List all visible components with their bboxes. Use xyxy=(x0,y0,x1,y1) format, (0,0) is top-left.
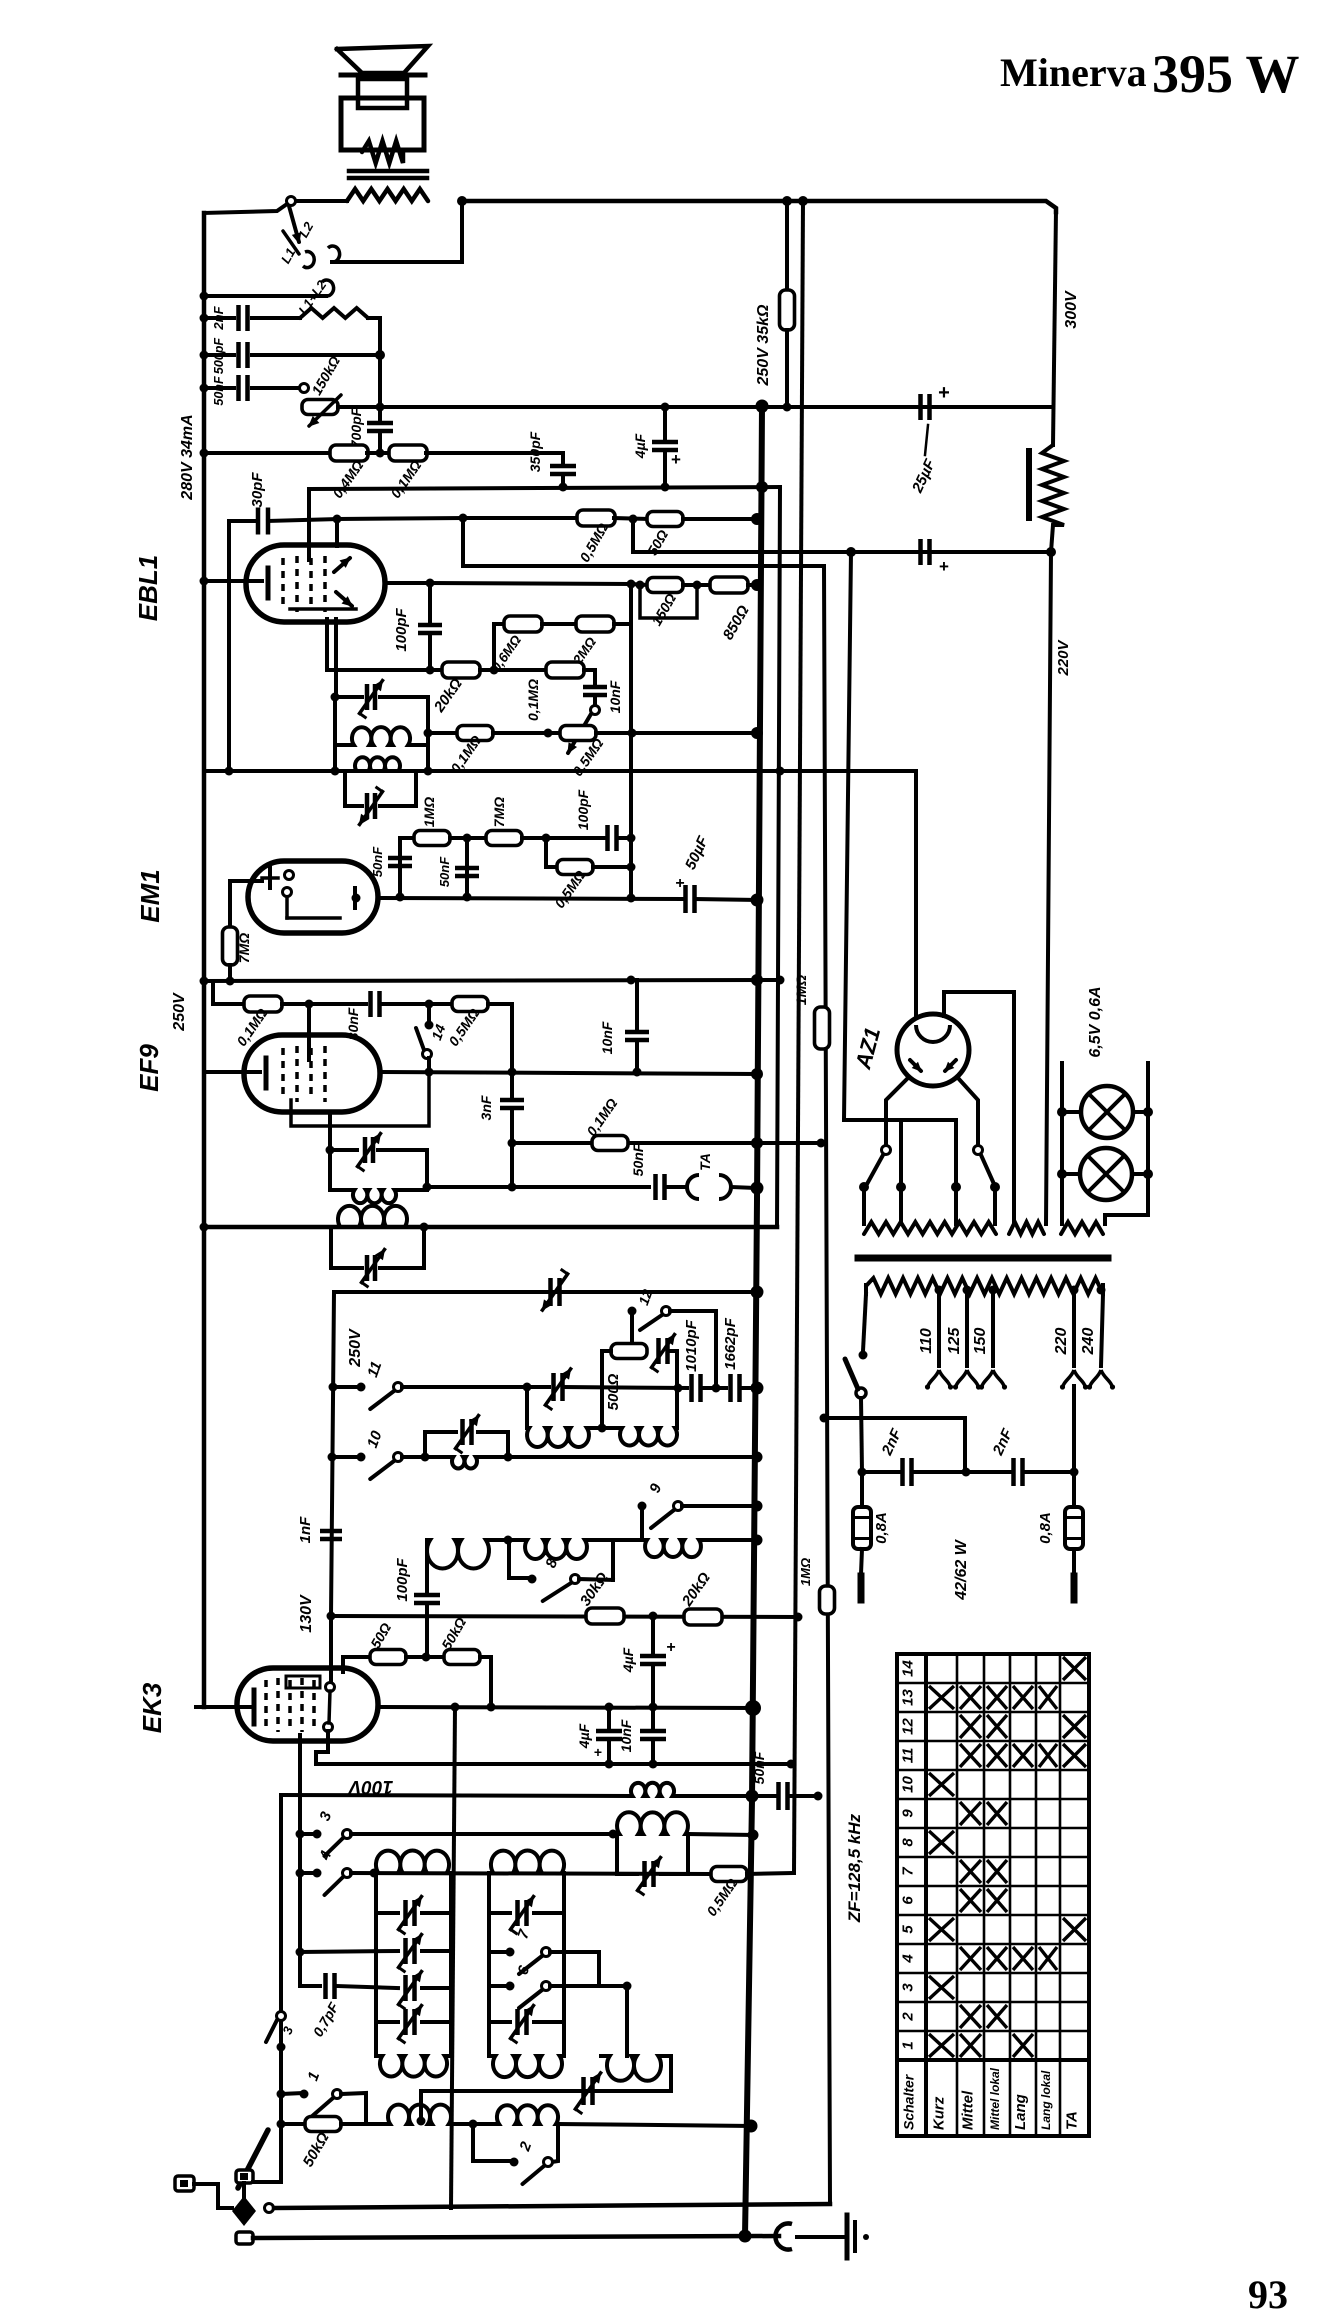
magnet bar 2 xyxy=(349,176,427,181)
node xyxy=(623,1982,632,1991)
wire xyxy=(674,1794,775,1798)
node xyxy=(463,834,472,843)
wire xyxy=(589,1426,620,1430)
heater winding 2 xyxy=(1009,1222,1044,1234)
node xyxy=(605,1760,614,1769)
EK3 grid ring 1 xyxy=(326,1683,335,1692)
filter bottom xyxy=(376,2054,380,2058)
tap 220 fork xyxy=(1063,1370,1074,1386)
wire xyxy=(463,518,824,566)
wire xyxy=(428,633,432,670)
svg-text:+: + xyxy=(594,1744,602,1760)
svg-text:Kurz: Kurz xyxy=(931,2096,948,2130)
rung2 trimmer xyxy=(518,1900,527,1926)
wire xyxy=(462,201,1056,212)
capacitor 10nFb xyxy=(625,1032,649,1040)
node xyxy=(990,1182,1000,1192)
wire row 733 xyxy=(428,731,457,735)
vertical wire xyxy=(492,624,496,670)
mains switch arm xyxy=(845,1359,858,1389)
wire bottom bus 1 xyxy=(274,2204,830,2208)
wire xyxy=(380,1002,453,1006)
arrester diamond xyxy=(232,2196,256,2226)
osc coil D xyxy=(525,1540,587,1559)
pilot lamp 1 xyxy=(1081,1086,1133,1138)
wire xyxy=(579,1579,613,1580)
rung 1951 xyxy=(300,1951,398,1952)
node xyxy=(277,2120,286,2129)
wire xyxy=(668,1349,677,1353)
resistor 0.4MW xyxy=(330,445,368,461)
vertical wire xyxy=(629,584,633,898)
tap 240 fork xyxy=(1090,1370,1101,1386)
node xyxy=(1057,1169,1067,1179)
wire xyxy=(509,1576,532,1580)
switch 13 arm xyxy=(568,714,591,753)
node xyxy=(200,449,209,458)
capacitor 25uF b xyxy=(921,539,930,565)
EBL1 diode arrow xyxy=(336,592,352,606)
node xyxy=(226,977,235,986)
node xyxy=(751,1286,764,1299)
dropper bar xyxy=(1026,451,1032,518)
svg-text:9: 9 xyxy=(900,1809,917,1818)
osc coil F0 xyxy=(631,1783,674,1796)
wire xyxy=(204,386,234,390)
wire row 1227 xyxy=(204,1225,777,1230)
wire xyxy=(252,353,380,357)
svg-text:+: + xyxy=(671,450,681,469)
wire xyxy=(614,518,648,519)
resistor 20kW2 xyxy=(684,1609,722,1625)
node xyxy=(469,2120,478,2129)
EM1 plate bar xyxy=(353,888,357,908)
resistor 0.5MWb xyxy=(560,726,596,741)
svg-text:8: 8 xyxy=(900,1838,917,1847)
coil hook L2 xyxy=(303,252,314,268)
wire xyxy=(944,992,1014,1224)
wire xyxy=(332,1455,361,1459)
potentiometer 150kW xyxy=(302,400,338,415)
vertical wire xyxy=(611,1540,615,1580)
switch 8 xyxy=(528,1575,537,1584)
node xyxy=(712,1384,721,1393)
osc coil E xyxy=(645,1540,701,1557)
wire xyxy=(333,1385,361,1389)
tube AZ1 xyxy=(897,1014,969,1086)
wire xyxy=(1072,1549,1076,1574)
wire xyxy=(229,519,258,523)
EM1 target 1 xyxy=(285,871,294,880)
node xyxy=(331,693,340,702)
wire xyxy=(338,405,380,409)
svg-text:30pF: 30pF xyxy=(249,472,266,508)
IF1 top xyxy=(335,695,362,699)
EK3 osc lead xyxy=(316,1731,328,1764)
wire xyxy=(593,865,631,869)
vertical V822 xyxy=(824,566,830,2204)
svg-text:1nF: 1nF xyxy=(297,1516,314,1544)
IF3 left xyxy=(328,1150,332,1190)
wire xyxy=(863,1294,866,1351)
IF2 bottom xyxy=(345,804,362,808)
svg-text:125: 125 xyxy=(946,1327,963,1355)
wire xyxy=(402,1455,452,1459)
resistor 0.6MW xyxy=(504,616,542,632)
node xyxy=(504,1536,513,1545)
switch 11 xyxy=(357,1383,366,1392)
resistor 50W xyxy=(647,512,683,527)
wire xyxy=(791,1872,794,1875)
rung trimmer xyxy=(406,1975,415,2001)
capacitor 3nF xyxy=(500,1100,524,1108)
capacitor 10nFc xyxy=(640,1731,666,1739)
svg-text:EBL1: EBL1 xyxy=(133,555,163,621)
resistor 7MWb xyxy=(223,927,238,965)
svg-text:350pF: 350pF xyxy=(527,431,543,472)
node xyxy=(649,1612,658,1621)
resistor 0.2MW xyxy=(576,616,614,632)
resistor 1MW xyxy=(414,831,450,846)
svg-text:EK3: EK3 xyxy=(137,1682,167,1733)
svg-text:Lang: Lang xyxy=(1012,2094,1029,2130)
IF3 coil xyxy=(353,1190,396,1203)
node xyxy=(544,729,553,738)
wire xyxy=(402,1385,549,1389)
node xyxy=(559,483,568,492)
IF4 bottom xyxy=(331,1266,362,1270)
fuse 0.8A a xyxy=(853,1507,871,1549)
node xyxy=(1143,1107,1153,1117)
capacitor 4uFb xyxy=(640,1656,666,1664)
IF3 right xyxy=(425,1150,429,1190)
osc coil C xyxy=(427,1540,489,1568)
wire xyxy=(252,386,300,390)
wire xyxy=(954,1120,958,1224)
wire xyxy=(430,583,631,584)
wire xyxy=(740,1386,757,1390)
node xyxy=(609,1830,618,1839)
svg-text:3nF: 3nF xyxy=(478,1095,494,1120)
capacitor 100pFc xyxy=(414,1595,440,1603)
node xyxy=(751,1382,764,1395)
vertical wire xyxy=(228,881,232,928)
wire row 981 xyxy=(204,980,780,981)
leader xyxy=(925,425,928,455)
node xyxy=(200,314,209,323)
vertical V780 xyxy=(777,487,780,1227)
node xyxy=(508,1068,517,1077)
wire xyxy=(797,2235,843,2239)
wire xyxy=(494,622,504,626)
wire xyxy=(651,1616,655,1652)
IF2 trimmer xyxy=(367,793,375,819)
svg-text:10nF: 10nF xyxy=(618,1719,634,1752)
IF2 coil xyxy=(355,757,400,771)
svg-text:+: + xyxy=(675,875,684,892)
plug A1 xyxy=(175,2176,194,2191)
svg-text:Mittel: Mittel xyxy=(960,2090,977,2130)
node xyxy=(794,1613,803,1622)
wire row 1764 xyxy=(316,1762,791,1766)
resistor 150W xyxy=(647,578,683,593)
wire row 1143 xyxy=(512,1141,821,1145)
node xyxy=(1070,1468,1079,1477)
node xyxy=(859,1351,868,1360)
speaker cone xyxy=(337,46,428,73)
wire xyxy=(367,451,390,455)
wire xyxy=(670,1311,716,1388)
svg-text:Minerva: Minerva xyxy=(1000,50,1147,95)
node xyxy=(756,401,768,413)
vertical wire xyxy=(675,1351,679,1428)
resistor 35kW xyxy=(780,290,795,330)
wire xyxy=(1072,1472,1076,1508)
node xyxy=(277,2043,286,2052)
resistor 1MW vert a xyxy=(815,1007,830,1049)
node xyxy=(748,1830,759,1841)
node xyxy=(798,196,808,206)
wire xyxy=(864,1285,868,1294)
resistor 850W xyxy=(710,577,748,593)
svg-text:500Ω: 500Ω xyxy=(605,1373,622,1410)
wire xyxy=(631,584,648,585)
node xyxy=(751,974,763,986)
ant coil L xyxy=(388,2105,451,2124)
wire xyxy=(748,583,757,587)
EK3 grid ring 2 xyxy=(324,1723,333,1732)
svg-text:10nF: 10nF xyxy=(607,680,623,713)
capacitor 1nF xyxy=(320,1531,342,1539)
node xyxy=(421,1453,430,1462)
switch 1 xyxy=(300,2090,309,2099)
node xyxy=(396,893,405,902)
node xyxy=(426,579,435,588)
EM1 plate lead xyxy=(352,894,361,903)
EK3 grid dashes xyxy=(300,1678,304,1732)
vertical wire xyxy=(635,980,639,1028)
wire xyxy=(400,836,414,840)
wire xyxy=(860,1472,864,1508)
trimmer 13b xyxy=(551,1278,560,1306)
svg-text:4µF: 4µF xyxy=(632,433,648,459)
AZ1 top arc xyxy=(916,1025,950,1042)
node xyxy=(376,403,385,412)
svg-text:1MΩ: 1MΩ xyxy=(798,1558,813,1586)
vertical 300V line xyxy=(1053,210,1056,445)
svg-text:1: 1 xyxy=(900,2041,917,2049)
vertical 250V osc xyxy=(331,1292,334,1616)
node xyxy=(627,834,636,843)
EF9 grid lead xyxy=(307,1004,311,1060)
dropper zigzag xyxy=(1042,445,1064,525)
resistor 1MW vert b xyxy=(820,1586,835,1614)
node xyxy=(333,515,342,524)
svg-text:6: 6 xyxy=(900,1896,917,1905)
svg-text:12: 12 xyxy=(900,1718,917,1735)
node xyxy=(508,1183,517,1192)
wire row 2091 xyxy=(421,2089,671,2093)
EBL1 cathode lead xyxy=(204,579,262,583)
node xyxy=(636,581,645,590)
node xyxy=(331,767,340,776)
node xyxy=(751,1182,764,1195)
capacitor 100pF xyxy=(418,625,442,633)
wire row 552 xyxy=(633,550,1051,554)
ant coil M xyxy=(497,2105,558,2124)
wire xyxy=(651,1739,655,1764)
rung trimmer xyxy=(406,1900,415,1926)
EK3 plate lead xyxy=(378,1707,753,1708)
wire xyxy=(651,1664,655,1707)
node xyxy=(627,580,636,589)
vertical wire xyxy=(600,1351,604,1428)
wire xyxy=(351,1873,711,1874)
capacitor 50nF xyxy=(239,375,248,401)
resistor 50kW xyxy=(444,1650,480,1665)
wire xyxy=(268,519,337,521)
svg-text:3: 3 xyxy=(900,1983,917,1992)
capacitor 4uFc xyxy=(596,1731,622,1739)
node xyxy=(752,1535,763,1546)
main left bus 250V xyxy=(202,213,207,1707)
transformer core xyxy=(858,1255,1108,1262)
switch2 box xyxy=(473,2124,514,2161)
capacitor 10nF xyxy=(583,687,607,695)
EM1 electrode xyxy=(268,868,272,888)
resistor 1kW zigzag xyxy=(300,308,368,318)
wire xyxy=(282,1002,366,1006)
svg-text:500pF: 500pF xyxy=(212,338,226,374)
AZ1 pin L arm xyxy=(867,1155,883,1184)
svg-text:Mittel lokal: Mittel lokal xyxy=(988,2067,1002,2130)
EBL1 grid dashes xyxy=(309,558,313,610)
wire xyxy=(861,1549,862,1574)
EM1 electrode xyxy=(262,876,278,880)
vertical wire xyxy=(425,1540,429,1592)
node xyxy=(756,481,768,493)
svg-text:0,8A: 0,8A xyxy=(1037,1512,1054,1544)
wire xyxy=(1051,525,1053,552)
EK3 grid dashes xyxy=(312,1680,316,1730)
IF1 bottom xyxy=(335,743,352,747)
plug A2 xyxy=(236,2170,253,2183)
vertical bus xyxy=(794,201,803,1873)
resistor 500W xyxy=(611,1344,647,1359)
wire row 898 xyxy=(378,898,682,899)
resistor 0.5MW xyxy=(577,510,615,526)
svg-text:280V 34mA: 280V 34mA xyxy=(179,414,196,500)
wire xyxy=(480,1657,491,1707)
wire xyxy=(542,622,576,626)
EBL1 plate-IF lead xyxy=(334,619,338,697)
wire xyxy=(663,450,667,487)
rung 2022 xyxy=(376,2020,398,2024)
wire xyxy=(341,2093,366,2124)
heater winding 3 xyxy=(1061,1222,1103,1234)
trimmer xyxy=(554,1373,563,1401)
capacitor 50nFc xyxy=(656,1174,665,1200)
tap 240 wire xyxy=(1101,1294,1103,1366)
IF3 bottom xyxy=(330,1188,353,1192)
EK3 inner box xyxy=(286,1676,320,1688)
wire xyxy=(1046,552,1051,1224)
ground bar 1 xyxy=(845,2215,850,2258)
node xyxy=(200,351,209,360)
jack TA xyxy=(687,1175,699,1199)
tube EF9 xyxy=(244,1035,380,1112)
wire xyxy=(663,407,667,442)
resistor 0.5MWc xyxy=(557,860,593,875)
wire xyxy=(544,838,548,867)
switch 2 xyxy=(510,2158,519,2167)
wire xyxy=(635,1040,639,1072)
node xyxy=(504,1453,513,1462)
bus1 left xyxy=(218,2206,232,2210)
V845 vertical xyxy=(844,552,851,1120)
wire xyxy=(427,1058,431,1072)
svg-text:50nF: 50nF xyxy=(212,376,226,406)
svg-text:250V: 250V xyxy=(171,992,188,1032)
wire xyxy=(296,199,347,203)
wire xyxy=(252,316,300,320)
node xyxy=(1057,1107,1067,1117)
resistor 0.1MWc xyxy=(457,726,493,741)
node xyxy=(751,513,763,525)
node xyxy=(661,483,670,492)
wire xyxy=(861,1398,862,1472)
wire xyxy=(630,1311,634,1344)
terminal stub xyxy=(858,1576,865,1600)
mains switch pivot xyxy=(856,1388,866,1398)
svg-text:ZF=128,5 kHz: ZF=128,5 kHz xyxy=(845,1813,864,1923)
filter2 left side xyxy=(487,1873,491,2056)
wire xyxy=(899,1120,903,1224)
wire xyxy=(477,1455,757,1459)
wire xyxy=(561,474,565,487)
filter2 bottom xyxy=(489,2054,493,2058)
EBL1 grid dashes xyxy=(281,558,285,610)
EK3 inj grid line xyxy=(329,1616,333,1683)
wire xyxy=(281,2093,304,2094)
node xyxy=(1143,1169,1153,1179)
wire xyxy=(546,865,557,869)
tap 125 node xyxy=(963,1286,972,1295)
wire row 1472 xyxy=(862,1470,899,1474)
tap 150 fork xyxy=(982,1370,993,1386)
EF9 grid dashes xyxy=(281,1048,285,1100)
EF9 cathode lead xyxy=(204,1070,260,1074)
tap 220 wire xyxy=(1072,1290,1076,1366)
EF9 cathode xyxy=(264,1058,269,1088)
resistor 20kW xyxy=(442,662,480,678)
node xyxy=(423,1183,432,1192)
EM1 target 2 xyxy=(283,888,292,897)
tap 150 node xyxy=(989,1286,998,1295)
node xyxy=(633,1068,642,1077)
svg-text:100pF: 100pF xyxy=(575,789,591,830)
wire xyxy=(862,1187,866,1224)
EF9 inner bracket xyxy=(291,1072,429,1126)
lamp wire right xyxy=(1105,1063,1148,1224)
node xyxy=(605,1703,614,1712)
switch 12 arm xyxy=(640,1315,662,1330)
capacitor 1010pF xyxy=(692,1374,701,1402)
wire xyxy=(617,836,631,840)
node xyxy=(508,1139,517,1148)
coupling hook xyxy=(775,2223,792,2249)
wire xyxy=(489,1538,525,1542)
